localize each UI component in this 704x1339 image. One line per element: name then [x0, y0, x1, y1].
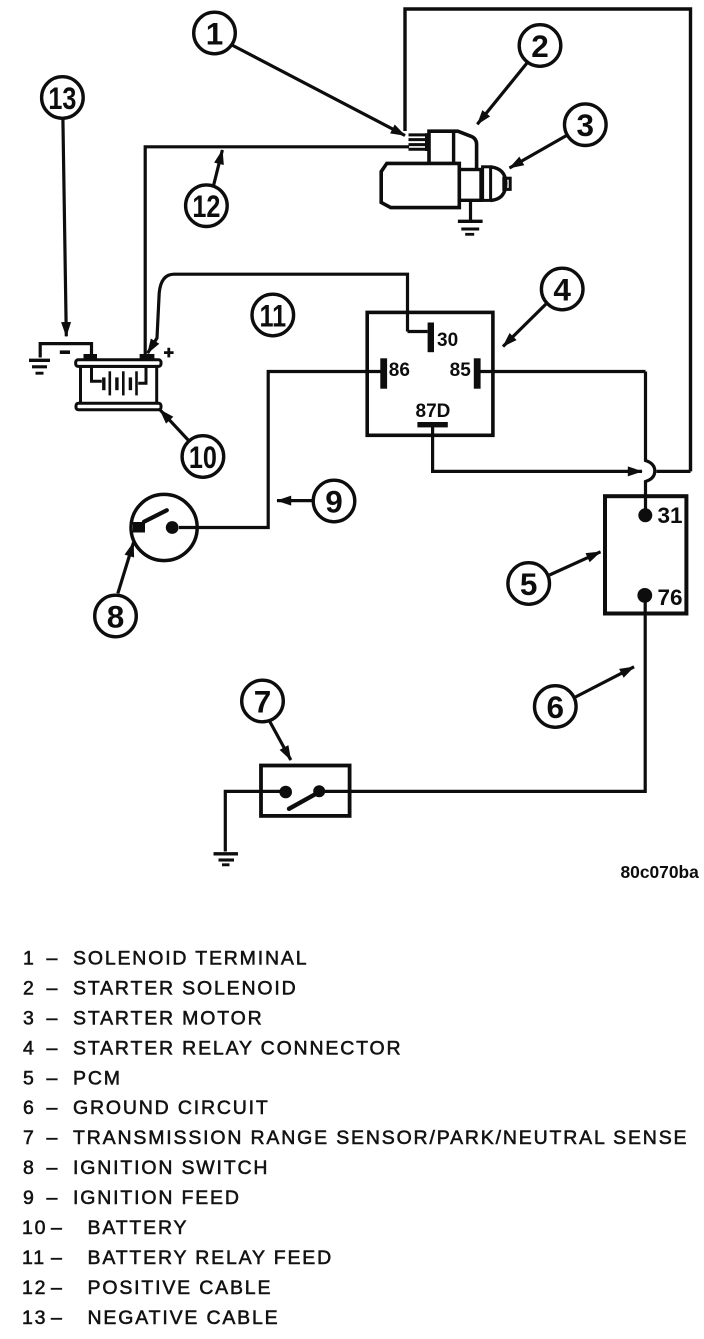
svg-text:IGNITION FEED: IGNITION FEED — [73, 1187, 241, 1209]
svg-text:TRANSMISSION RANGE SENSOR/PARK: TRANSMISSION RANGE SENSOR/PARK/NEUTRAL S… — [73, 1127, 688, 1149]
svg-text:STARTER RELAY CONNECTOR: STARTER RELAY CONNECTOR — [73, 1037, 402, 1059]
svg-text:8: 8 — [23, 1157, 36, 1179]
svg-text:NEGATIVE CABLE: NEGATIVE CABLE — [88, 1307, 280, 1329]
svg-text:–: – — [47, 1127, 60, 1149]
svg-text:STARTER SOLENOID: STARTER SOLENOID — [73, 977, 298, 999]
svg-text:–: – — [47, 1157, 60, 1179]
svg-text:9: 9 — [325, 483, 343, 519]
svg-text:76: 76 — [658, 585, 683, 610]
svg-text:9: 9 — [23, 1187, 36, 1209]
svg-text:POSITIVE CABLE: POSITIVE CABLE — [88, 1277, 273, 1299]
svg-text:GROUND CIRCUIT: GROUND CIRCUIT — [73, 1097, 270, 1119]
svg-text:–: – — [51, 1277, 64, 1299]
svg-text:13: 13 — [22, 1307, 47, 1329]
svg-text:87D: 87D — [416, 401, 451, 422]
svg-text:3: 3 — [23, 1007, 36, 1029]
svg-text:7: 7 — [23, 1127, 36, 1149]
svg-text:–: – — [47, 947, 60, 969]
svg-text:31: 31 — [658, 503, 683, 528]
svg-text:13: 13 — [48, 81, 76, 116]
svg-text:–: – — [51, 1247, 64, 1269]
svg-text:11: 11 — [22, 1247, 46, 1269]
svg-text:SOLENOID TERMINAL: SOLENOID TERMINAL — [73, 947, 308, 969]
svg-text:7: 7 — [254, 683, 272, 719]
svg-text:80c070ba: 80c070ba — [621, 862, 700, 882]
svg-text:–: – — [47, 1187, 60, 1209]
svg-text:30: 30 — [437, 330, 458, 351]
svg-text:12: 12 — [192, 189, 220, 224]
svg-text:IGNITION SWITCH: IGNITION SWITCH — [73, 1157, 269, 1179]
svg-text:5: 5 — [23, 1067, 36, 1089]
svg-text:1: 1 — [23, 947, 36, 969]
svg-text:STARTER MOTOR: STARTER MOTOR — [73, 1007, 264, 1029]
svg-text:–: – — [47, 1067, 60, 1089]
svg-text:–: – — [47, 1037, 60, 1059]
svg-text:85: 85 — [450, 360, 472, 381]
svg-text:–: – — [51, 1217, 64, 1239]
svg-text:–: – — [47, 1007, 60, 1029]
svg-text:12: 12 — [22, 1277, 47, 1299]
svg-text:2: 2 — [23, 977, 36, 999]
svg-text:3: 3 — [577, 107, 595, 143]
svg-text:5: 5 — [520, 566, 538, 602]
svg-text:6: 6 — [547, 689, 565, 725]
svg-text:–: – — [51, 1307, 64, 1329]
svg-text:6: 6 — [23, 1097, 36, 1119]
svg-text:4: 4 — [23, 1037, 36, 1059]
svg-text:BATTERY RELAY FEED: BATTERY RELAY FEED — [88, 1247, 334, 1269]
svg-text:10: 10 — [189, 440, 217, 475]
svg-text:10: 10 — [22, 1217, 47, 1239]
svg-text:1: 1 — [206, 15, 224, 51]
svg-text:2: 2 — [531, 28, 549, 64]
svg-text:11: 11 — [259, 299, 286, 334]
svg-text:–: – — [47, 1097, 60, 1119]
svg-text:–: – — [47, 977, 60, 999]
svg-text:4: 4 — [553, 271, 571, 307]
svg-text:8: 8 — [107, 598, 125, 634]
svg-text:PCM: PCM — [73, 1067, 122, 1089]
svg-text:86: 86 — [389, 360, 410, 381]
svg-text:BATTERY: BATTERY — [88, 1217, 189, 1239]
